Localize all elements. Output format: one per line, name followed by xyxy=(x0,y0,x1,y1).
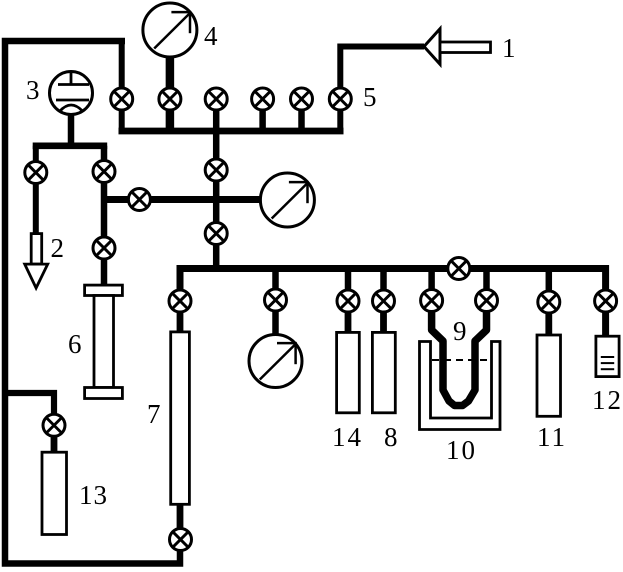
svg-text:11: 11 xyxy=(537,422,567,452)
wire: stem to tube 12 xyxy=(602,307,609,338)
valve (122,99) xyxy=(111,88,133,110)
valve (431.6,300.5) xyxy=(421,290,443,312)
wire: stem to tube 14 xyxy=(345,307,352,335)
tube 8 xyxy=(372,332,395,412)
wire: left border + top-left run and bottom run xyxy=(5,41,180,564)
liquid level dashed line xyxy=(432,359,490,361)
valve (104,171.5) xyxy=(93,161,115,183)
valve (180,301) xyxy=(169,290,191,312)
valve (139.4,199.5) xyxy=(128,189,150,211)
gauge (unlabeled, right of central vertical) xyxy=(260,173,314,227)
valve (36,172) xyxy=(25,162,47,184)
gauge (unlabeled, lower) xyxy=(249,335,302,388)
valve (54,425) xyxy=(43,414,65,436)
wire: stem tube 7 to bottom valve xyxy=(177,504,184,532)
valve (548.8,302) xyxy=(538,291,560,313)
wire: stub stem valve x=301 xyxy=(298,92,305,131)
svg-text:3: 3 xyxy=(26,75,40,105)
valve (180,536.5) xyxy=(170,529,192,551)
tube 12 (with frit lines) xyxy=(596,336,619,376)
svg-text:8: 8 xyxy=(384,422,398,452)
wire: stem to tube 8 xyxy=(380,307,387,335)
valve (216,170) xyxy=(205,159,227,181)
valve (486.5,300.5) xyxy=(476,290,498,312)
svg-text:6: 6 xyxy=(68,329,82,359)
tube 7 (long column) xyxy=(171,332,190,504)
svg-text:5: 5 xyxy=(363,82,377,112)
tube 6 (column with flanges) xyxy=(85,285,123,398)
valve (216,233.5) xyxy=(205,223,227,245)
svg-text:7: 7 xyxy=(147,399,161,429)
wire: stem to tube 11 xyxy=(545,307,552,338)
gauge 3 stem xyxy=(68,112,75,149)
tube 11 xyxy=(537,335,561,416)
wire: manifold 2 with end drops xyxy=(180,269,606,296)
tube 14 xyxy=(337,332,360,412)
wire: vertical drop x=122 from top-left run to manifold 1 xyxy=(119,41,125,134)
svg-text:4: 4 xyxy=(204,21,218,51)
wire: branch to cylinder 13 xyxy=(3,393,54,416)
svg-text:12: 12 xyxy=(592,385,623,415)
wire: inlet run from arrow 1 down to manifold 1 xyxy=(340,47,424,132)
valve 5 (340,99) xyxy=(329,88,351,110)
tube 9 (U trap) xyxy=(432,305,487,406)
valve (104,248) xyxy=(93,237,115,259)
valve (275.5,300) xyxy=(265,289,287,311)
valve (459,268.5) inline on manifold 2 xyxy=(448,258,470,280)
wire: stem valve to tube 7 xyxy=(177,307,184,334)
wire: stub stem valve x=262 xyxy=(259,92,266,131)
wire: gauge 4 stem xyxy=(166,56,175,131)
valve (383.5,301) xyxy=(373,290,395,312)
vent arrow 2 xyxy=(25,234,48,288)
gauge 4 (manometer) xyxy=(143,3,197,57)
wire: central vertical x=216 manifold1 to manifold2 xyxy=(213,131,220,270)
wire: stem valve to cylinder 13 xyxy=(51,430,58,454)
inlet arrow 1 xyxy=(424,29,491,64)
valve (605.6,301) xyxy=(595,290,617,312)
wire: stems manifold2 to valve row xyxy=(272,269,279,296)
svg-text:1: 1 xyxy=(502,33,516,63)
gauge 3 (vacuum gauge) xyxy=(50,71,93,115)
svg-text:14: 14 xyxy=(332,422,363,452)
cylinder 13 xyxy=(42,452,67,534)
wire: stem valve to gauge below xyxy=(272,307,279,336)
svg-text:13: 13 xyxy=(79,480,108,510)
valve (301,99) xyxy=(291,88,313,110)
valve (170,99) xyxy=(159,88,181,110)
valve (262,99) xyxy=(252,88,274,110)
svg-text:9: 9 xyxy=(453,316,467,346)
wire: cross line y=199.5 from left column to gauge xyxy=(104,196,260,203)
wire: T-bar under gauge 3 xyxy=(33,143,108,150)
valve (216,99) xyxy=(205,88,227,110)
wire: manifold 1 xyxy=(119,128,344,135)
wire: left branch down to vent arrow 2 xyxy=(33,146,39,236)
wire: right branch down to tube 6 xyxy=(101,146,108,287)
container 10 (dewar) xyxy=(420,342,501,430)
wire: stub stem valve x=216 xyxy=(213,92,220,131)
svg-text:10: 10 xyxy=(446,435,477,465)
svg-text:2: 2 xyxy=(51,233,65,263)
valve (348,301) xyxy=(337,290,359,312)
